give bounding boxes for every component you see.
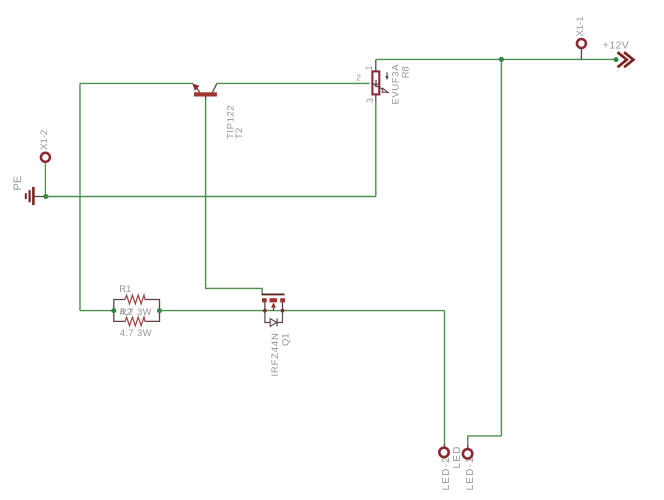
ground PE — [26, 187, 46, 205]
svg-text:R1: R1 — [119, 284, 131, 295]
mosfet Q1 IRFZ44N — [262, 294, 286, 326]
svg-text:R8: R8 — [401, 66, 412, 78]
junction dot resistors right — [157, 308, 162, 313]
junction dot drain — [263, 309, 267, 313]
body diode — [265, 311, 270, 323]
wire right riser — [500, 59, 502, 436]
drain stub — [264, 302, 266, 310]
wiper diagonal with arrowhead — [375, 85, 384, 89]
svg-text:IRFZ44N: IRFZ44N — [270, 332, 281, 376]
junction dot rail/riser — [499, 57, 504, 62]
transistor T2 TIP122 — [192, 83, 217, 101]
svg-text:+12V: +12V — [603, 39, 629, 51]
svg-text:Q1: Q1 — [281, 333, 292, 346]
trimmer R8 EVUF3A — [371, 59, 389, 196]
base bar — [194, 92, 217, 96]
resistor R2 bottom branch — [114, 311, 160, 326]
resistor R1 top branch — [114, 295, 160, 310]
svg-text:LED: LED — [452, 445, 463, 468]
wire collector to R8 pin2 — [217, 82, 370, 84]
channel segment 3 — [280, 298, 285, 302]
channel segment 1 — [262, 298, 267, 302]
channel segment 2 — [270, 298, 278, 302]
svg-text:PE: PE — [12, 176, 24, 191]
junction dot at +12V symbol — [614, 57, 619, 62]
wire emitter net left riser — [79, 83, 81, 310]
wire R8 pin3 to ground net — [375, 102, 377, 197]
adjust arrow — [386, 72, 388, 76]
svg-text:LED-2: LED-2 — [441, 456, 452, 490]
junction dot resistors left — [111, 308, 116, 313]
wire emitter net horizontal — [80, 82, 193, 84]
supply symbol +12V — [619, 53, 634, 66]
pin 3 — [375, 94, 377, 101]
connector LED-2 — [439, 444, 448, 457]
collector lead — [212, 83, 217, 92]
svg-text:3: 3 — [365, 98, 375, 103]
svg-text:LED-1: LED-1 — [465, 456, 476, 490]
svg-text:R2: R2 — [120, 307, 132, 318]
wire emitter net bottom stub — [80, 310, 114, 312]
connector LED-1 — [463, 445, 472, 458]
svg-text:X1-2: X1-2 — [39, 130, 50, 150]
wire riser to LED-1 — [468, 436, 502, 448]
svg-text:T2: T2 — [234, 127, 245, 139]
emitter arrow — [192, 84, 199, 91]
svg-text:2: 2 — [356, 72, 361, 82]
junction dot source — [281, 309, 285, 313]
wire base net — [206, 99, 263, 294]
connector X1-1 — [577, 39, 586, 59]
source stub — [282, 302, 284, 310]
wiper cross — [371, 83, 378, 85]
junction dot ground — [43, 194, 48, 199]
wire ground net — [46, 196, 376, 198]
svg-text:1: 1 — [364, 65, 374, 70]
wire R to Q1 to LED-2 — [160, 310, 445, 312]
connector X1-2 — [41, 153, 50, 197]
body rect — [372, 71, 379, 94]
svg-text:X1-1: X1-1 — [575, 16, 586, 36]
pin 1 — [375, 59, 377, 71]
bulk arrow — [273, 307, 275, 311]
base stub — [205, 97, 207, 102]
wire +12V top rail — [376, 58, 616, 60]
svg-text:4.7 3W: 4.7 3W — [120, 328, 152, 339]
gate bar — [262, 293, 285, 295]
